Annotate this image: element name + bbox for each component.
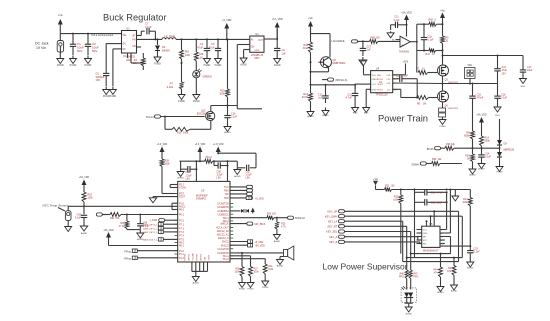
svg-text:ASW_KEY1_L: ASW_KEY1_L [143, 227, 158, 230]
svg-text:ASW_KEY2_L: ASW_KEY2_L [143, 231, 158, 234]
svg-text:50V: 50V [92, 49, 97, 53]
svg-text:P6.0: P6.0 [179, 209, 185, 212]
svg-text:47uF: 47uF [197, 46, 203, 49]
svg-text:XOUT: XOUT [209, 254, 211, 261]
svg-text:PGood: PGood [146, 116, 154, 119]
svg-text:100k: 100k [165, 163, 171, 166]
svg-text:B5G: B5G [521, 86, 526, 88]
svg-text:PGND: PGND [85, 65, 92, 67]
svg-text:VIN: VIN [123, 35, 127, 37]
svg-text:(SPKR-LK): (SPKR-LK) [335, 79, 348, 82]
svg-text:TA1.2: TA1.2 [222, 258, 229, 261]
svg-text:L5A: L5A [217, 177, 222, 180]
svg-text:SS: SS [123, 49, 127, 51]
svg-text:0.1uF: 0.1uF [474, 251, 481, 254]
svg-text:3.16k: 3.16k [167, 85, 174, 89]
svg-text:+5_VDD: +5_VDD [255, 199, 264, 201]
svg-text:P6.1: P6.1 [179, 214, 185, 217]
svg-text:AGND: AGND [274, 64, 281, 67]
svg-text:25V: 25V [502, 72, 507, 75]
svg-text:AGND: AGND [307, 115, 314, 118]
svg-text:22uF: 22uF [527, 69, 533, 72]
svg-text:BSS138: BSS138 [197, 113, 206, 116]
svg-text:4.7k: 4.7k [281, 226, 286, 229]
svg-text:SRT: SRT [423, 240, 428, 242]
svg-text:47.1k: 47.1k [119, 226, 125, 228]
svg-text:PGND: PGND [239, 289, 246, 291]
svg-text:AGND: AGND [469, 174, 476, 177]
svg-text:MR: MR [423, 237, 427, 239]
svg-text:1uF: 1uF [318, 97, 323, 100]
svg-text:100k: 100k [235, 272, 241, 274]
svg-text:+5_VDD: +5_VDD [222, 19, 231, 22]
svg-text:+Vin: +Vin [58, 14, 63, 17]
svg-text:AGND: AGND [322, 114, 329, 117]
svg-text:SPKR-LK: SPKR-LK [295, 217, 306, 220]
svg-text:KEY_SEL: KEY_SEL [326, 231, 338, 234]
svg-text:+: + [401, 43, 403, 47]
svg-text:KEY_B: KEY_B [329, 241, 337, 244]
svg-text:AGND: AGND [277, 265, 284, 268]
svg-text:PGND: PGND [439, 126, 446, 128]
svg-text:AGND: AGND [406, 313, 413, 316]
svg-text:P7.0: P7.0 [179, 219, 185, 222]
svg-text:CIN: CIN [439, 237, 443, 239]
svg-text:AGND: AGND [478, 168, 485, 171]
svg-text:DVSS2: DVSS2 [197, 253, 199, 261]
svg-text:R11: R11 [120, 223, 125, 225]
svg-text:+5A_VDD: +5A_VDD [401, 11, 412, 14]
svg-text:P7.4: P7.4 [179, 235, 185, 238]
svg-text:GND: GND [255, 50, 260, 52]
svg-text:VCORE: VCORE [193, 252, 195, 260]
svg-text:TON1: TON1 [377, 79, 384, 81]
svg-text:+1.8_VDD: +1.8_VDD [213, 144, 224, 146]
svg-text:PGND: PGND [247, 289, 254, 291]
svg-text:L5A: L5A [186, 178, 191, 181]
svg-text:SiR470DP: SiR470DP [448, 108, 459, 110]
svg-text:+5A_VDD: +5A_VDD [476, 114, 487, 117]
svg-text:C30: C30 [431, 191, 436, 194]
svg-text:PGND: PGND [262, 287, 269, 289]
svg-text:0.1uF: 0.1uF [501, 97, 508, 100]
svg-text:4.7uF: 4.7uF [346, 97, 353, 100]
svg-text:PGND: PGND [215, 65, 222, 67]
svg-text:EN: EN [123, 44, 127, 46]
svg-text:AGND: AGND [274, 240, 281, 243]
svg-text:DVSS1: DVSS1 [185, 253, 187, 261]
svg-text:AVSS2: AVSS2 [200, 253, 203, 260]
svg-text:OUT: OUT [258, 40, 263, 42]
svg-text:100k: 100k [88, 197, 94, 200]
svg-text:100k: 100k [219, 93, 225, 96]
svg-text:R29: R29 [268, 266, 273, 268]
svg-text:KEY_RT: KEY_RT [328, 226, 338, 229]
svg-text:AGND: AGND [234, 175, 241, 178]
svg-text:PPG: PPG [414, 277, 419, 279]
svg-text:301k: 301k [303, 47, 309, 50]
svg-text:+3.3_VDD: +3.3_VDD [195, 144, 206, 146]
svg-text:+3.3_VDD: +3.3_VDD [157, 144, 168, 146]
svg-text:GND: GND [372, 89, 377, 91]
svg-text:+5A_VDD: +5A_VDD [103, 229, 114, 232]
svg-text:470uF: 470uF [477, 97, 484, 100]
svg-text:J_ASW: J_ASW [149, 219, 158, 222]
svg-text:VBA: VBA [439, 243, 444, 246]
svg-text:R26: R26 [235, 269, 240, 271]
svg-text:MBR0530: MBR0530 [504, 149, 515, 152]
svg-text:DBV: DBV [255, 58, 260, 60]
svg-text:PProg: PProg [124, 251, 131, 254]
svg-text:LAN-WAKE: LAN-WAKE [332, 40, 345, 43]
svg-text:0.1uF: 0.1uF [145, 25, 152, 29]
svg-text:OUT: OUT [439, 240, 444, 242]
svg-text:B5G: B5G [495, 115, 500, 117]
svg-text:GREEN: GREEN [203, 75, 212, 79]
svg-text:AGND: AGND [467, 267, 474, 270]
svg-text:AGND: AGND [177, 177, 184, 180]
svg-text:+3.3_VDD: +3.3_VDD [272, 18, 283, 21]
svg-text:1uF: 1uF [367, 49, 372, 52]
svg-text:UCA1TXD: UCA1TXD [218, 248, 229, 251]
svg-text:PGND: PGND [154, 64, 161, 66]
svg-text:PGND: PGND [110, 96, 117, 98]
svg-text:PPG: PPG [399, 277, 404, 279]
svg-text:R27: R27 [254, 269, 259, 271]
svg-text:AVSS1: AVSS1 [188, 253, 191, 260]
svg-text:+5A_VDD: +5A_VDD [79, 176, 90, 179]
svg-text:KEY_A: KEY_A [329, 236, 337, 239]
svg-text:IN: IN [251, 40, 254, 42]
svg-text:THS4281: THS4281 [399, 51, 410, 54]
svg-text:MMBT3904: MMBT3904 [333, 62, 347, 65]
svg-text:0.1uF: 0.1uF [75, 217, 82, 220]
svg-text:PGND: PGND [178, 101, 185, 103]
svg-text:DC Jack: DC Jack [35, 42, 49, 46]
svg-text:10uF: 10uF [437, 201, 443, 204]
svg-text:5VS: 5VS [372, 75, 377, 77]
svg-text:LP2985-33: LP2985-33 [251, 54, 264, 57]
svg-text:PGND: PGND [193, 101, 200, 103]
svg-text:1uF: 1uF [282, 52, 287, 55]
svg-text:R21: R21 [110, 217, 115, 220]
svg-text:47uF: 47uF [209, 46, 215, 49]
svg-text:VFB1: VFB1 [377, 84, 383, 86]
svg-text:ON: ON [251, 47, 255, 49]
svg-text:AGND: AGND [437, 291, 444, 294]
svg-text:AGND: AGND [193, 282, 200, 285]
svg-text:FB: FB [133, 46, 136, 48]
svg-text:650k: 650k [464, 135, 470, 138]
svg-text:RST: RST [439, 230, 444, 232]
svg-text:10uH: 10uH [169, 34, 175, 38]
svg-text:SDWN-: SDWN- [411, 164, 419, 167]
svg-text:L5A: L5A [246, 177, 251, 180]
svg-text:Not a recommended: Not a recommended [92, 34, 114, 37]
svg-text:TEST: TEST [179, 196, 186, 199]
svg-text:BKUP-: BKUP- [427, 148, 435, 151]
svg-text:19 Vin: 19 Vin [36, 46, 46, 50]
svg-text:MIC_BIAS: MIC_BIAS [255, 223, 266, 226]
svg-text:Low Power Supervisor: Low Power Supervisor [323, 262, 408, 272]
svg-text:100: 100 [376, 37, 381, 40]
svg-text:1k: 1k [200, 55, 204, 59]
svg-text:100k: 100k [462, 201, 468, 204]
svg-text:R41: R41 [426, 53, 431, 56]
svg-text:10k: 10k [185, 53, 190, 57]
svg-text:Buck Regulator: Buck Regulator [103, 13, 167, 23]
svg-text:PGD1: PGD1 [377, 89, 384, 91]
svg-text:4.7uF: 4.7uF [437, 191, 444, 194]
svg-text:0.1uF: 0.1uF [485, 156, 492, 159]
svg-text:16V: 16V [96, 78, 101, 82]
svg-text:P7.1: P7.1 [179, 223, 185, 226]
svg-text:C25: C25 [396, 75, 401, 78]
svg-text:0.1uF: 0.1uF [393, 19, 400, 22]
svg-text:KEY_UP: KEY_UP [327, 211, 337, 214]
svg-text:AGND: AGND [451, 290, 458, 293]
svg-text:100k: 100k [393, 199, 399, 202]
svg-text:RProg: RProg [124, 258, 131, 261]
svg-text:AGND: AGND [224, 131, 231, 134]
svg-text:P8.1: P8.1 [179, 245, 185, 248]
svg-text:R48: R48 [400, 274, 405, 276]
svg-text:XT2IN: XT2IN [179, 187, 186, 190]
svg-text:0.1uF: 0.1uF [231, 116, 238, 119]
svg-text:+5A_VDD: +5A_VDD [255, 245, 266, 248]
svg-text:0.1uF: 0.1uF [402, 75, 409, 78]
svg-text:U3: U3 [201, 189, 205, 193]
svg-text:R31: R31 [385, 185, 390, 188]
svg-text:SMCLK: SMCLK [220, 223, 229, 226]
svg-text:PGND: PGND [204, 65, 211, 67]
svg-text:B5G: B5G [364, 113, 369, 115]
svg-text:R52: R52 [432, 158, 437, 161]
svg-text:MAX6364LUT: MAX6364LUT [423, 249, 439, 252]
svg-text:GND: GND [423, 233, 428, 235]
svg-text:650k: 650k [485, 140, 491, 143]
svg-text:+Vin: +Vin [308, 17, 313, 20]
svg-text:P7.2: P7.2 [179, 227, 185, 230]
svg-text:TDO: TDO [224, 197, 229, 200]
svg-text:Power Train: Power Train [378, 113, 428, 124]
svg-text:B340A: B340A [162, 48, 170, 52]
svg-text:VCC: VCC [423, 230, 428, 232]
svg-text:WDI: WDI [439, 233, 443, 235]
svg-text:100k: 100k [268, 269, 274, 271]
svg-text:PGND: PGND [70, 65, 77, 67]
svg-text:+5VS: +5VS [403, 61, 409, 63]
svg-text:49.9k: 49.9k [302, 96, 309, 99]
svg-text:+Vin: +Vin [373, 178, 378, 181]
svg-text:AGND: AGND [81, 232, 88, 235]
svg-text:+Vin: +Vin [440, 9, 445, 12]
svg-text:R44: R44 [433, 270, 438, 272]
svg-text:5438IPZ: 5438IPZ [196, 197, 206, 201]
svg-text:C31: C31 [431, 201, 436, 204]
svg-text:B5G: B5G [353, 113, 358, 115]
svg-text:P7.3: P7.3 [179, 231, 185, 234]
svg-text:VCC: VCC [372, 84, 377, 86]
svg-text:IN-: IN- [392, 40, 395, 42]
svg-text:100k: 100k [254, 272, 260, 274]
svg-text:ASW_KEY0_L: ASW_KEY0_L [143, 223, 158, 226]
svg-text:AGND: AGND [240, 64, 247, 67]
svg-text:+5_VDD: +5_VDD [255, 242, 264, 244]
svg-text:TPS51120: TPS51120 [375, 93, 388, 97]
svg-text:R16: R16 [177, 132, 182, 135]
svg-text:TDI: TDI [225, 193, 229, 196]
svg-text:NTC Temp Sensor: NTC Temp Sensor [43, 204, 68, 208]
svg-text:UCA0RXD: UCA0RXD [217, 206, 229, 209]
svg-text:PH: PH [132, 40, 136, 42]
svg-text:DDL: DDL [468, 64, 473, 67]
svg-text:PGND: PGND [57, 65, 64, 67]
svg-text:R66: R66 [429, 19, 434, 22]
svg-text:0.1uF: 0.1uF [428, 39, 435, 42]
svg-text:DVCC: DVCC [222, 241, 229, 244]
svg-text:XIN: XIN [205, 257, 207, 261]
svg-text:50V: 50V [77, 49, 82, 53]
svg-text:R47: R47 [414, 274, 419, 276]
svg-text:KEY_LF: KEY_LF [328, 220, 338, 223]
svg-text:1M: 1M [423, 104, 426, 106]
svg-text:100k: 100k [183, 132, 189, 135]
svg-text:ASW_BOLT_L: ASW_BOLT_L [143, 239, 158, 242]
svg-text:100: 100 [391, 185, 396, 188]
svg-text:KEY_DWN: KEY_DWN [325, 215, 338, 218]
svg-text:PGND: PGND [496, 172, 503, 174]
